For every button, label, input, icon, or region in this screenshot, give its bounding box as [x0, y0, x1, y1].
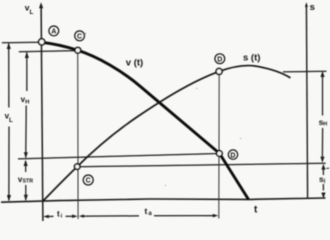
node D on s(t) — [216, 68, 222, 74]
t_a dimension left tail — [84, 215, 139, 217]
scan speck — [196, 88, 197, 89]
v axis arrowhead — [39, 2, 43, 8]
circled label D (upper, on s curve) — [215, 54, 225, 64]
scan speck — [240, 138, 241, 139]
svg-text:i: i — [324, 179, 326, 185]
s_H bottom arrowhead at s_i line — [320, 157, 324, 163]
circled label A — [49, 26, 59, 36]
curve s(t) — [43, 66, 290, 201]
left outer dimension v_L line lower part — [8, 127, 10, 201]
left inner dimension v_H line upper part — [26, 53, 28, 92]
svg-text:t: t — [254, 205, 258, 216]
right dimension s_H line upper part — [322, 73, 324, 116]
node A (open circle on v axis) — [39, 39, 45, 45]
v axis (left vertical axis) — [41, 5, 43, 221]
right dimension s_H line lower part — [321, 128, 323, 157]
v_STR dimension line upper part — [25, 161, 27, 172]
t axis (bottom horizontal axis) — [1, 198, 326, 202]
svg-text:C: C — [77, 34, 82, 41]
right dimension s_H top arrowhead — [321, 71, 325, 77]
s_i dimension line upper part — [322, 169, 324, 176]
svg-text:D: D — [230, 152, 235, 159]
v_L top arrowhead — [7, 43, 11, 49]
v_H top arrowhead — [25, 52, 29, 58]
s_i bottom arrowhead — [321, 193, 325, 199]
t_i dimension left tail — [49, 215, 54, 217]
small dash mark right of s_i arrow — [326, 167, 329, 169]
svg-text:L: L — [9, 118, 13, 124]
svg-text:D: D — [217, 56, 222, 63]
svg-text:H: H — [323, 122, 327, 128]
svg-text:a: a — [148, 211, 152, 217]
node D on v(t) — [217, 151, 223, 157]
reference line at level A — [2, 41, 42, 44]
s_i dimension line lower part — [322, 184, 324, 191]
v_L bottom arrowhead — [7, 195, 11, 201]
t_i dimension left arrowhead — [43, 215, 49, 219]
vertical guide at t_i — [77, 51, 79, 220]
v_H bottom arrowhead at v_STR line — [24, 152, 28, 158]
svg-text:t: t — [145, 206, 148, 216]
s_i dimension top arrowhead — [321, 164, 325, 170]
t_i dimension right tail — [66, 215, 73, 217]
circled label D (lower, on v curve) — [228, 150, 237, 159]
node C on s(t) — [75, 164, 80, 169]
curve v(t) — [42, 42, 249, 199]
svg-text:L: L — [30, 9, 34, 16]
svg-text:C: C — [86, 178, 91, 185]
scan speck — [165, 185, 166, 186]
t_a dimension right tail — [154, 215, 214, 217]
circled label C (lower, on s curve) — [83, 175, 93, 185]
svg-text:STR: STR — [23, 178, 34, 184]
svg-text:i: i — [61, 213, 63, 219]
s axis arrowhead — [305, 2, 308, 7]
v_STR level line — [18, 154, 220, 159]
s_H top connector line — [283, 70, 327, 73]
v_STR bottom arrowhead — [24, 195, 28, 201]
circled label C (upper, on v curve) — [75, 31, 85, 41]
t_a dimension left arrowhead — [79, 215, 84, 218]
t_a dimension right arrowhead — [213, 214, 219, 218]
node C on v(t) — [75, 47, 81, 53]
svg-text:H: H — [25, 99, 29, 105]
left inner dimension v_H line lower part — [25, 106, 27, 158]
s_i level line — [77, 163, 326, 167]
scan speck — [85, 33, 86, 34]
reference line at level C — [19, 51, 78, 52]
svg-text:s (t): s (t) — [243, 52, 260, 63]
svg-text:t: t — [57, 209, 60, 218]
left outer dimension v_L line upper part — [8, 44, 10, 108]
svg-text:v (t): v (t) — [126, 58, 143, 69]
svg-text:A: A — [51, 29, 56, 36]
svg-text:s: s — [310, 2, 315, 13]
s axis (right vertical axis) — [306, 4, 307, 199]
vertical guide at t_a — [218, 72, 220, 219]
t_i dimension right arrowhead — [72, 215, 78, 219]
v_STR dimension top arrowhead — [24, 160, 28, 166]
v_STR dimension line lower part — [25, 185, 27, 200]
